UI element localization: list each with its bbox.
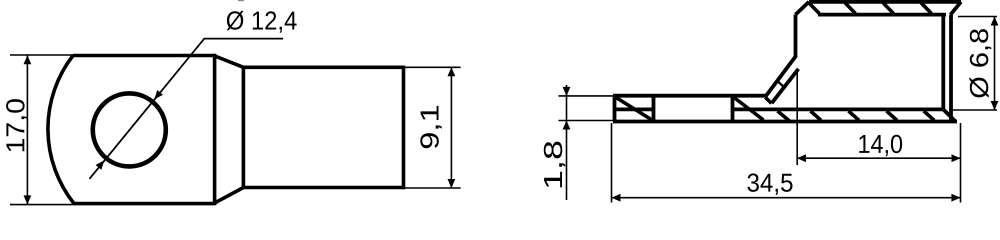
right box section diagonal — [734, 98, 764, 121]
top wall hatch 1 — [809, 3, 820, 14]
dim 34,5: dimension line — [612, 197, 961, 199]
dim 17,0: bottom arrowhead — [24, 195, 32, 204]
lug palm outline: top edge — [73, 54, 215, 58]
diameter leader line through hole — [90, 39, 284, 179]
dim Ø 6,8: dimension line — [994, 17, 996, 111]
bend inner line — [772, 69, 799, 103]
dim Ø 6,8: bottom extension line — [950, 109, 997, 111]
lug palm outline: right edge — [213, 54, 217, 206]
barrel inner top edge — [818, 13, 946, 17]
dim 34,5: left extension line — [611, 123, 613, 203]
dim 14,0: left arrowhead — [797, 154, 806, 162]
dim Ø 6,8: top arrowhead — [991, 17, 999, 26]
lug palm outline: left arc — [48, 56, 74, 204]
dim 1,8: lower arrowhead pointing up — [563, 121, 571, 130]
dim 17,0: top extension line — [10, 54, 73, 56]
bolt hole circle — [93, 93, 166, 166]
hole window left vertical — [652, 96, 656, 122]
dim 9,1: bottom arrowhead — [448, 179, 456, 188]
dim 34,5: right arrowhead — [951, 194, 960, 202]
top wall hatch 4 — [921, 3, 932, 14]
transition slant top — [214, 56, 244, 68]
dim 14,0: dimension line — [797, 157, 961, 159]
barrel left edge — [794, 15, 798, 58]
dim 17,0: bottom extension line — [10, 204, 74, 206]
hole window right vertical — [731, 96, 735, 122]
bottom edge full length — [613, 120, 957, 124]
top wall hatch 3 — [883, 3, 894, 14]
barrel front: top edge — [243, 66, 403, 70]
top sheet end face — [765, 97, 771, 103]
barrel front: bottom edge — [243, 186, 403, 190]
label 9,1 — [420, 106, 442, 148]
bottom wall hatch 3 — [849, 111, 860, 120]
bottom wall hatch 1 — [778, 111, 790, 121]
dim 14,0: right arrowhead — [952, 154, 961, 162]
label 14,0 — [859, 135, 902, 157]
transition slant bottom — [214, 188, 244, 204]
tongue top edge — [613, 94, 766, 98]
left box section diagonal — [616, 98, 652, 121]
leader arrowhead lower-left — [96, 160, 105, 169]
bend outer line — [766, 57, 796, 97]
barrel front: left edge — [242, 67, 246, 187]
dim 9,1: top arrowhead — [448, 67, 456, 76]
label 17,0 — [6, 99, 28, 151]
dim 1,8: dimension line — [566, 85, 568, 200]
label 34,5 — [747, 173, 792, 195]
bottom right chamfer — [944, 110, 956, 122]
tongue left edge — [613, 96, 617, 122]
dim Ø 6,8: bottom arrowhead — [991, 101, 999, 110]
dim Ø 6,8: top extension line — [958, 16, 997, 18]
bottom wall hatch 4 — [887, 111, 898, 120]
dim 17,0: top arrowhead — [24, 55, 32, 64]
label Ø 12,4 — [227, 11, 297, 33]
top wall hatch 2 — [845, 3, 856, 14]
tongue mid seam / barrel inner bottom line — [733, 108, 944, 112]
bottom wall hatch 2 — [811, 111, 822, 120]
bottom wall hatch 5 — [924, 111, 935, 120]
tongue mid seam left segment — [613, 108, 654, 112]
barrel right top chamfer — [951, 2, 962, 15]
barrel outer top edge — [809, 0, 961, 4]
bend hatch tick — [777, 81, 784, 88]
barrel inner right edge — [941, 15, 945, 110]
dim 9,1: dimension line — [450, 67, 452, 188]
dim 1,8: upper arrowhead pointing down — [563, 87, 571, 96]
dim 34,5: left arrowhead — [612, 194, 621, 202]
label Ø 6,8 — [969, 29, 991, 98]
dim 17,0: dimension line — [26, 55, 28, 205]
dim 1,8: top extension line — [559, 95, 614, 97]
dim 14,0: left extension line (continues up as bore-left line) — [796, 69, 798, 165]
barrel front: right edge — [402, 66, 406, 190]
dim 9,1: top extension line — [405, 66, 461, 68]
right extension line shared by 14,0 and 34,5 — [960, 123, 962, 203]
barrel outer right edge — [949, 15, 953, 122]
dim 9,1: bottom extension line — [405, 187, 461, 189]
crop artifact dash at top — [238, 0, 244, 1]
leader arrowhead upper-right — [154, 90, 163, 99]
lug palm outline: bottom edge — [74, 202, 215, 206]
dim 1,8: bottom extension line — [559, 120, 614, 122]
barrel left chamfer — [796, 2, 810, 15]
label 1,8 — [544, 142, 566, 188]
